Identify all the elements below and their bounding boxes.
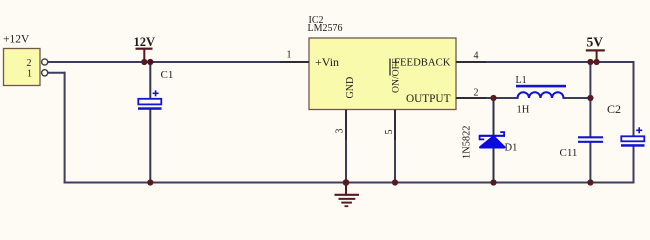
wire C11 branch vertical from 5V rail through inductor node xyxy=(589,62,591,137)
label LM2576 xyxy=(308,23,343,34)
svg-text:3: 3 xyxy=(335,129,346,134)
junction dot 5V node xyxy=(587,59,593,65)
label C2 xyxy=(607,102,621,116)
wire inductor to C11 node xyxy=(563,97,592,99)
value label 1H xyxy=(517,104,530,115)
wire C2 branch vertical top xyxy=(633,61,635,137)
pin 4 lead of IC xyxy=(456,61,486,63)
svg-text:LM2576: LM2576 xyxy=(308,23,343,34)
wire IC pin2 OUTPUT to inductor xyxy=(484,97,519,99)
junction dot 5V stub xyxy=(594,59,600,65)
svg-text:ON/OFF: ON/OFF xyxy=(391,58,402,93)
label C11 xyxy=(560,147,578,159)
connector +12V body xyxy=(3,34,40,86)
pin number 1 xyxy=(287,50,292,61)
connector pin 2 circle xyxy=(42,59,48,65)
junction dot GND pin bottom rail xyxy=(343,179,350,186)
label L1 xyxy=(516,75,527,86)
svg-text:2: 2 xyxy=(474,88,479,99)
wire left vertical drop to bottom rail xyxy=(64,72,66,184)
label C1 xyxy=(161,69,174,81)
svg-text:4: 4 xyxy=(474,51,479,62)
wire diode branch vertical bottom xyxy=(493,148,495,184)
svg-text:1: 1 xyxy=(287,50,292,61)
svg-text:OUTPUT: OUTPUT xyxy=(406,93,451,105)
svg-text:L1: L1 xyxy=(516,75,527,86)
wire pin 5 to bottom rail xyxy=(394,140,396,184)
pin name ON/OFF (rotated, with overbar) xyxy=(390,58,402,93)
capacitor C1 xyxy=(138,90,162,110)
label IC2 xyxy=(309,15,324,26)
wire C1 branch vertical bottom xyxy=(149,110,151,184)
wire C1 branch vertical top xyxy=(149,62,151,99)
svg-text:12V: 12V xyxy=(134,35,156,49)
pin name GND (rotated) xyxy=(345,77,356,99)
pin number 2 xyxy=(474,88,479,99)
label D1 xyxy=(505,143,518,154)
wire C2 branch vertical bottom xyxy=(633,146,635,184)
svg-text:1: 1 xyxy=(27,68,32,79)
svg-text:5: 5 xyxy=(384,130,395,135)
svg-text:1H: 1H xyxy=(517,104,530,115)
svg-text:D1: D1 xyxy=(505,143,518,154)
junction dot C11 bottom rail xyxy=(587,179,593,185)
diode D1 (Schottky 1N5822) xyxy=(479,132,505,147)
wire pin1 of connector to left drop xyxy=(48,72,66,74)
svg-text:+Vin: +Vin xyxy=(315,55,339,69)
wire C11 branch vertical bottom xyxy=(589,143,591,184)
wire diode branch vertical top xyxy=(493,98,495,135)
net label 5V xyxy=(586,35,605,63)
net label 12V xyxy=(134,35,156,62)
junction dot C1 bottom rail xyxy=(147,179,153,185)
wire pin2 of connector to IC pin 1 (top rail left) xyxy=(48,61,282,63)
pin name +Vin xyxy=(315,55,339,69)
pin name FEEDBACK xyxy=(394,56,451,68)
connector pin 1 number xyxy=(27,68,32,79)
svg-text:2: 2 xyxy=(27,58,32,69)
svg-text:+12V: +12V xyxy=(3,34,30,46)
value label 1N5822 (rotated) xyxy=(462,126,473,159)
pin number 3 (rotated) xyxy=(335,129,346,134)
junction dot 12V stub xyxy=(141,59,147,65)
op-amp U1 : IC2 LM2576 regulator body xyxy=(309,38,456,110)
pin number 5 (rotated) xyxy=(384,130,395,135)
svg-text:C1: C1 xyxy=(161,69,174,81)
svg-text:5V: 5V xyxy=(587,35,604,50)
svg-text:1N5822: 1N5822 xyxy=(462,126,473,159)
pin 1 lead of IC xyxy=(280,61,309,63)
wire bottom ground rail xyxy=(64,182,635,184)
svg-text:FEEDBACK: FEEDBACK xyxy=(394,56,451,68)
pin 5 lead of IC xyxy=(394,110,396,142)
wire IC pin4 FEEDBACK to 5V node and C2 corner (top rail right) xyxy=(484,61,635,63)
capacitor C2 xyxy=(621,127,645,146)
wire pin 3 to bottom rail xyxy=(345,140,347,184)
svg-text:C11: C11 xyxy=(560,147,578,159)
svg-text:C2: C2 xyxy=(607,102,621,116)
inductor L1 xyxy=(516,85,566,98)
connector pin 1 circle xyxy=(42,70,48,76)
junction dot diode bottom rail xyxy=(490,179,496,185)
pin 3 lead of IC xyxy=(345,110,347,142)
junction dot inductor / C11 node xyxy=(587,95,593,101)
capacitor C11 xyxy=(578,137,603,142)
junction dot OUTPUT / diode node xyxy=(490,95,496,101)
pin 2 lead of IC xyxy=(456,97,486,99)
junction dot 12V node / C1 xyxy=(147,59,153,65)
junction dot ON/OFF pin bottom rail xyxy=(392,179,398,185)
connector pin 2 number xyxy=(27,58,32,69)
svg-text:GND: GND xyxy=(345,77,356,99)
pin name OUTPUT xyxy=(406,93,451,105)
ground xyxy=(335,183,360,207)
pin number 4 xyxy=(474,51,479,62)
